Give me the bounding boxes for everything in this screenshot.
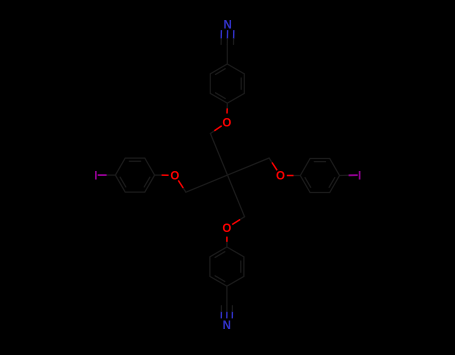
bond O(top)-ring <box>226 103 228 113</box>
bond O(bottom)-ring <box>226 237 228 247</box>
bond O(left)-ring <box>155 174 169 176</box>
bond O(top)-CH2 <box>210 126 221 134</box>
benzene ring right <box>300 159 339 193</box>
benzene ring left <box>115 158 154 192</box>
svg-text:N: N <box>223 320 231 332</box>
triple bond C#N (top) <box>221 30 234 44</box>
triple bond C#N (bottom) <box>221 306 232 319</box>
benzene ring bottom <box>210 247 244 286</box>
svg-text:I: I <box>358 170 361 182</box>
bond O(right)-CH2 <box>269 158 277 170</box>
bond I(left)-ring <box>98 174 116 176</box>
svg-text:I: I <box>94 170 97 182</box>
svg-text:O: O <box>170 170 179 182</box>
svg-text:O: O <box>222 118 231 130</box>
bond O(right)-ring <box>287 175 301 177</box>
bond ring-C of nitrile (top) <box>226 44 228 64</box>
bond O(bottom)-CH2 <box>232 217 244 225</box>
benzene ring top <box>210 64 244 103</box>
svg-text:N: N <box>224 20 232 32</box>
bond I(right)-ring <box>340 174 358 176</box>
svg-text:O: O <box>222 223 231 235</box>
bond ring-C of nitrile (bottom) <box>226 286 228 306</box>
svg-text:O: O <box>276 171 285 183</box>
central quaternary carbon C with four CH2 bonds <box>186 134 269 217</box>
bond O(left)-CH2 <box>178 180 186 192</box>
